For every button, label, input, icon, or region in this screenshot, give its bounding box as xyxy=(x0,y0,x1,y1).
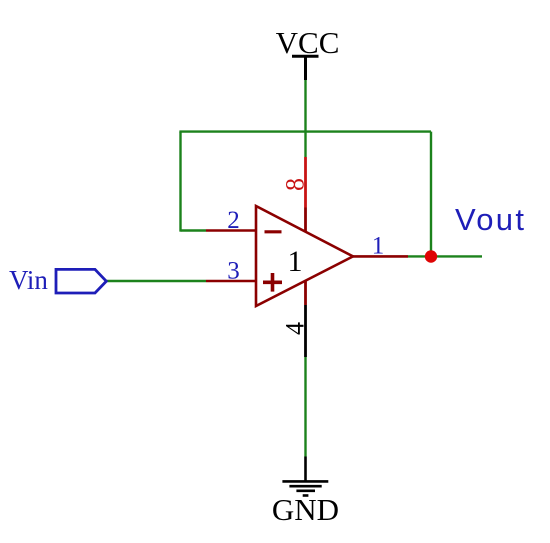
op-amp inverting marker (minus) xyxy=(265,230,282,233)
pin 3 xyxy=(206,280,256,283)
svg-text:GND: GND xyxy=(272,492,339,527)
svg-text:1: 1 xyxy=(288,245,303,278)
svg-text:Vin: Vin xyxy=(9,265,48,295)
svg-text:4: 4 xyxy=(281,322,310,335)
wire feedback left vertical xyxy=(179,132,181,232)
svg-text:8: 8 xyxy=(281,178,310,191)
svg-text:3: 3 xyxy=(227,258,240,285)
pin 4 (V- power pin) xyxy=(304,280,307,305)
pin 8 (V+ power pin) xyxy=(304,157,307,208)
wire Vin to pin 3 xyxy=(106,280,206,282)
wire feedback left horizontal to pin 2 xyxy=(181,229,207,231)
svg-text:Vout: Vout xyxy=(455,202,526,237)
pin 1 (output) xyxy=(353,255,408,258)
ground symbol xyxy=(282,457,328,496)
wire output xyxy=(408,255,482,257)
svg-text:VCC: VCC xyxy=(276,25,340,60)
pin 2 xyxy=(206,229,256,232)
svg-text:1: 1 xyxy=(372,233,385,260)
op-amp U1 body xyxy=(256,206,353,306)
wire VCC to net xyxy=(304,80,306,157)
wire feedback top horizontal xyxy=(179,130,431,132)
terminal Vin xyxy=(56,269,106,293)
junction dot xyxy=(425,250,437,262)
wire pin 4 to ground xyxy=(304,357,306,457)
svg-text:2: 2 xyxy=(227,207,240,234)
VCC power symbol xyxy=(292,56,319,80)
wire feedback right vertical xyxy=(430,132,432,257)
op-amp non-inverting marker (plus) xyxy=(263,273,282,292)
